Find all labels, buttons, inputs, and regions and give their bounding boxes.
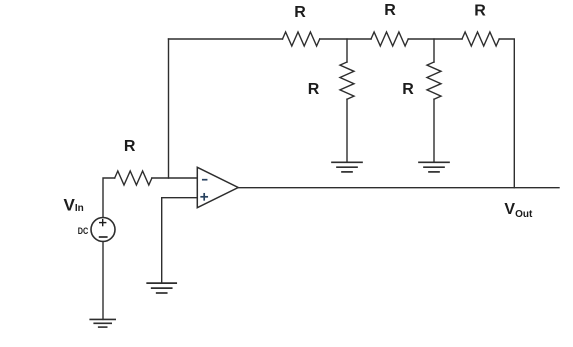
- wire top rail segment C: [408, 38, 462, 40]
- resistor R3 (top-right horizontal): [462, 32, 499, 46]
- svg-text:VIn: VIn: [64, 195, 84, 214]
- wire top rail segment B: [320, 38, 371, 40]
- svg-text:R: R: [308, 81, 320, 98]
- resistor R4 (vertical shunt 1): [340, 62, 354, 99]
- voltage source V1 plus mark: [100, 220, 106, 226]
- node tap1 junction: [346, 39, 348, 62]
- node tap2 junction: [433, 39, 435, 62]
- voltage source V1 minus mark: [100, 236, 107, 238]
- resistor R2 (top-middle horizontal): [371, 32, 408, 46]
- wire top rail to right corner and down to output: [499, 39, 514, 188]
- wire R5 to ground: [433, 99, 435, 162]
- ground GND4 (under V1): [90, 319, 115, 327]
- resistor R6 (input series): [115, 171, 152, 185]
- wire top rail segment A: [169, 38, 283, 40]
- ground GND2 (under R5): [419, 162, 449, 172]
- wire output rail: [238, 187, 559, 189]
- op-amp U1 inverting pin mark: [203, 179, 207, 181]
- wire non-inverting input to ground: [162, 198, 198, 283]
- svg-text:DC: DC: [78, 226, 89, 237]
- wire input resistor to inverting input: [152, 177, 197, 179]
- ground GND3 (op-amp + input): [147, 283, 176, 293]
- resistor R1 (top-left horizontal): [283, 32, 320, 46]
- wire R4 to ground: [346, 99, 348, 162]
- svg-text:R: R: [294, 4, 306, 21]
- svg-text:R: R: [474, 3, 486, 20]
- ground GND1 (under R4): [332, 162, 362, 172]
- wire Vin to input resistor: [103, 178, 115, 218]
- wire feedback left vertical (inverting node to top rail): [168, 39, 170, 178]
- voltage source V1 (DC): [91, 218, 115, 242]
- op-amp U1 non-inverting pin mark: [201, 194, 207, 200]
- svg-text:R: R: [124, 138, 136, 155]
- svg-text:R: R: [402, 81, 414, 98]
- wire V1 to ground: [102, 242, 104, 320]
- op-amp U1: [197, 167, 238, 207]
- svg-text:R: R: [384, 2, 396, 19]
- resistor R5 (vertical shunt 2): [427, 62, 441, 99]
- svg-text:VOut: VOut: [504, 201, 533, 220]
